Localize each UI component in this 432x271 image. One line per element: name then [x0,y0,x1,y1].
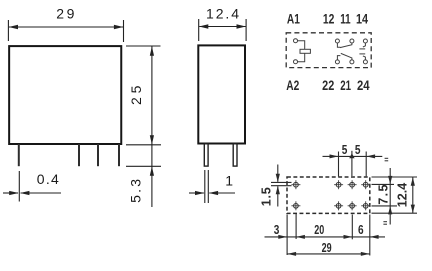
svg-text:6: 6 [358,223,364,237]
dimension 1.5 (left pad offset) [271,165,292,207]
svg-text:12.4: 12.4 [395,183,409,208]
svg-text:12.4: 12.4 [206,6,239,22]
contact 11 stem and arm [340,43,352,48]
contact 24 stem [363,56,366,60]
dimension 12.4 (side width) [199,19,246,41]
svg-text:1: 1 [225,173,233,189]
svg-text:5.3: 5.3 [127,179,143,203]
svg-text:29: 29 [322,241,332,255]
svg-text:20: 20 [314,223,324,237]
hole 22 [334,201,343,210]
pin 1 front view [18,144,20,166]
hole 24 [361,201,370,210]
svg-text:3: 3 [274,223,280,237]
hole A1 [291,180,300,189]
svg-text:21: 21 [340,77,351,93]
contact terminal 11 [350,39,354,43]
coil terminal A1 [294,39,298,43]
dimension 29 (pcb width) [287,253,369,255]
contact terminal 12 [335,39,339,43]
svg-text:A1: A1 [287,11,300,27]
pin 4 front view [118,144,120,166]
dimension 1 (side pin width) [189,170,235,203]
contact 24 fixed bar [359,53,365,55]
svg-text:14: 14 [356,11,368,27]
hole 11 [348,180,357,189]
dimension 7.5 (pad row spacing) [372,168,398,225]
contact terminal 22 [335,60,339,64]
pin left side view [204,144,208,166]
svg-text:24: 24 [357,77,370,93]
contact 21 stem and arm [341,53,352,60]
hole A2 [291,201,300,210]
contact 14 stem [363,43,366,47]
svg-text:A2: A2 [286,77,299,93]
contact terminal 21 [350,60,354,64]
svg-text:1.5: 1.5 [260,187,274,206]
pin right side view [233,144,237,166]
equality mark top [385,158,389,161]
PCB layout dashed outline [287,177,370,213]
contact 22 stem [337,56,340,60]
pin 2 front view [78,144,80,166]
dimension 3 20 6 (pad columns) [265,214,386,256]
svg-text:22: 22 [322,77,334,93]
pin 3 front view [97,144,99,166]
hole 12 [334,180,343,189]
dimension 0.4 (pin thickness) [3,171,61,202]
svg-text:5: 5 [342,143,348,157]
dimension 29 (front width) [8,20,123,42]
schematic dashed outline [286,33,371,68]
dimension 5.3 (pin length) [126,145,161,207]
PCB holes grid [291,180,370,210]
relay body front view [9,46,121,144]
contact 14 fixed bar [359,48,365,50]
svg-text:0.4: 0.4 [37,171,59,187]
equality mark bottom [383,222,387,225]
hole 14 [361,180,370,189]
contact terminal 14 [363,39,367,43]
hole 21 [348,201,357,210]
coil terminal A2 [294,60,298,64]
svg-text:7.5: 7.5 [377,185,391,205]
dimension 25 (front height) [126,46,161,145]
relay body side view [198,45,245,143]
svg-text:11: 11 [340,11,351,27]
contact 12 stem [337,43,340,47]
coil element [300,49,310,53]
svg-text:12: 12 [323,11,335,27]
contact terminal 24 [363,60,367,64]
svg-text:5: 5 [355,143,361,157]
dimension 12.4 (pcb height) [372,177,418,213]
dimension 5 5 (top pad spacing) [323,151,383,177]
coil U1 wiring [298,41,305,62]
